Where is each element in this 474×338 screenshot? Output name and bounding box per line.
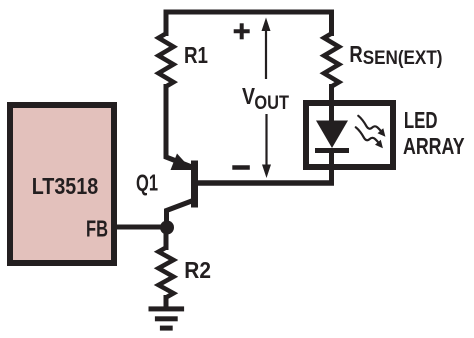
wire top rail: [166, 12, 332, 36]
svg-text:R1: R1: [184, 42, 208, 68]
svg-text:R2: R2: [184, 257, 211, 283]
wire LED cathode to bottom node: [329, 151, 334, 186]
ground: [149, 306, 185, 330]
wire FB node to R2: [164, 227, 169, 250]
minus sign: [232, 165, 250, 170]
transistor Q1 base bar: [191, 161, 198, 208]
wire FB pin: [114, 225, 169, 230]
wire R2 to ground: [164, 295, 169, 308]
svg-text:ARRAY: ARRAY: [403, 133, 465, 159]
resistor RSEN(EXT): [324, 34, 339, 87]
wire Q1 collector to FB node: [167, 201, 194, 233]
svg-text:OUT: OUT: [254, 93, 289, 114]
svg-text:Q1: Q1: [136, 170, 158, 196]
node FB junction dot: [160, 221, 174, 235]
wire RSEN bottom into LED box: [329, 84, 334, 122]
svg-text:R: R: [349, 41, 363, 67]
LED D1 cathode bar: [315, 148, 349, 153]
transistor Q1 emitter arrowhead: [171, 154, 193, 171]
wire R1 bottom to Q1 emitter: [166, 84, 193, 168]
svg-text:SEN(EXT): SEN(EXT): [363, 48, 443, 69]
plus sign: [234, 23, 250, 39]
svg-text:LED: LED: [404, 107, 438, 133]
LED light emission squiggle arrow 1: [358, 116, 385, 137]
IC U1 LT3518 box: [10, 105, 114, 263]
wire Q1 base to LED array bottom: [193, 180, 334, 186]
svg-text:LT3518: LT3518: [32, 173, 99, 199]
LED array box: [306, 103, 393, 167]
resistor R2: [159, 248, 174, 298]
VOUT up arrow: [262, 18, 271, 80]
LED D1 anode triangle: [316, 121, 348, 149]
resistor R1: [159, 34, 174, 87]
svg-text:FB: FB: [86, 216, 108, 242]
LED light emission squiggle arrow 2: [356, 127, 383, 148]
VOUT down arrow: [262, 114, 271, 178]
